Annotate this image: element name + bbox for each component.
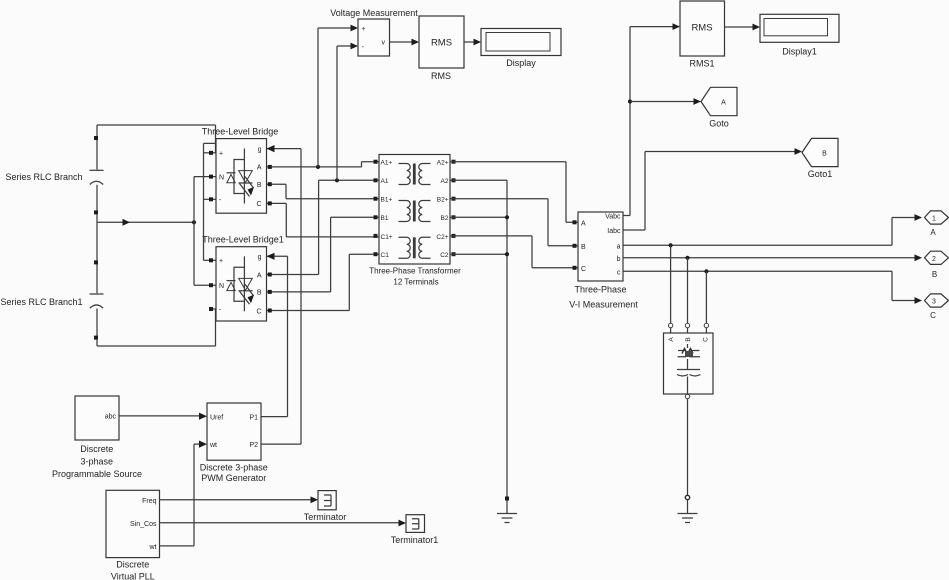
capacitor Series RLC Branch1 [90,260,104,339]
block RMS1 [680,1,725,56]
block RMS [419,16,464,68]
block Display [481,29,561,56]
svg-text:V-I Measurement: V-I Measurement [569,300,638,310]
wire bridge A to transformer A1+ [267,162,380,169]
svg-text:B2+: B2+ [437,197,449,204]
wire minus stub bridge [204,197,217,201]
wire bottom DC rail [97,309,216,346]
label Terminator [304,512,347,522]
svg-text:B1: B1 [381,215,389,222]
svg-text:Discrete 3-phase: Discrete 3-phase [200,463,268,473]
label Three-Phase Transformer [369,267,461,287]
wire transformer C2+ to V-I measurement C [450,236,578,270]
svg-text:A: A [257,272,262,279]
block Voltage Measurement VM [358,19,390,56]
svg-text:B: B [257,182,262,189]
block Discrete Virtual PLL [106,490,160,557]
block Three-Phase Transformer 12 Terminals T1 [379,155,450,265]
icon transformer winding phase C [399,237,431,258]
block Display1 [760,14,839,42]
wire PLL wt to PWM wt [160,441,208,546]
svg-text:Virtual PLL: Virtual PLL [111,572,155,580]
wire N stub bridge [194,175,216,179]
label Discrete 3-phase Programmable Source [52,444,142,479]
svg-text:A1+: A1+ [381,160,393,167]
goto tag B Goto1 [802,138,838,166]
svg-text:RMS1: RMS1 [689,59,714,69]
svg-text:Programmable Source: Programmable Source [52,469,142,479]
block Terminator1 [406,515,425,533]
svg-text:Terminator: Terminator [304,512,347,522]
outport 1 A [925,211,949,224]
wire plus stub bridge [204,151,216,155]
wire transformer B2 to ground bus [450,215,509,219]
wire RMS to Display [464,39,481,46]
icon load RLC elements [677,344,701,394]
svg-text:Uref: Uref [210,415,223,422]
svg-text:B: B [685,337,692,341]
svg-text:Three-Phase: Three-Phase [574,285,626,295]
node midpoint junction [192,220,196,224]
wire minus-to-plus link bridge/bridge1 [204,143,216,260]
block Discrete 3-phase PWM Generator [207,403,261,460]
wire P1 to g of bridge1 [261,253,288,417]
svg-text:Freq: Freq [142,498,157,505]
svg-text:c: c [617,269,621,276]
outport 2 B [925,251,949,264]
svg-text:wt: wt [209,442,217,449]
svg-text:B2: B2 [441,215,449,222]
label C [930,311,936,320]
svg-text:Three-Level Bridge: Three-Level Bridge [202,127,279,137]
wire minus stub bridge1 [209,307,216,311]
svg-text:Discrete: Discrete [116,560,149,570]
capacitor Series RLC Branch [90,136,104,214]
svg-text:1: 1 [932,216,936,223]
svg-text:B: B [932,270,937,279]
icon transformer winding phase B [399,201,431,222]
wire Vabc to RMS1 [623,23,680,215]
wire Sin_Cos to Terminator1 [160,520,407,527]
wire RMS1 to Display1 [725,24,761,31]
svg-text:v: v [382,40,386,47]
svg-text:B1+: B1+ [381,197,393,204]
wire c tap to load phase C [704,269,708,333]
wire midpoint horizontal to N bus [97,219,194,226]
svg-text:Vabc: Vabc [605,214,621,221]
svg-text:RMS: RMS [691,22,712,33]
svg-text:C1+: C1+ [381,234,393,241]
wire top DC rail [97,125,216,153]
ground G2 [678,514,698,523]
label RMS1 [689,59,714,69]
svg-text:Terminator1: Terminator1 [391,535,439,545]
svg-text:3-phase: 3-phase [81,457,114,467]
wire abc to Uref [119,413,207,420]
svg-text:wt: wt [149,544,157,551]
wire bridge C to transformer C1+ [267,201,380,237]
svg-text:A: A [257,165,262,172]
label B [932,270,937,279]
svg-text:A2: A2 [441,178,449,185]
svg-text:Discrete: Discrete [80,444,113,454]
block Three-Level Bridge U1 [216,139,267,214]
wire plus stub bridge1 [204,258,217,262]
label RMS [431,71,451,81]
svg-text:P1: P1 [249,415,258,422]
wire Freq to Terminator [160,496,319,503]
wire a to outport 1 [623,214,922,245]
svg-text:B: B [581,244,586,251]
wire transformer A2+ to V-I measurement A [450,162,578,225]
svg-text:3: 3 [932,299,936,306]
wire Iabc to Goto1 [623,148,802,230]
svg-text:A: A [721,100,726,107]
label Series RLC Branch [5,172,82,182]
svg-text:abc: abc [105,413,117,420]
svg-text:Series RLC Branch: Series RLC Branch [5,172,82,182]
goto tag A Goto [701,87,737,115]
svg-text:g: g [258,146,262,153]
svg-text:N: N [219,174,224,181]
wire bridge1 C to transformer C1 [267,254,380,312]
svg-text:Sin_Cos: Sin_Cos [130,521,157,528]
svg-text:N: N [219,283,224,290]
svg-text:C: C [256,308,261,315]
svg-text:A: A [668,337,675,342]
wire b to outport 2 [623,254,922,261]
wire transformer C2 to ground bus [450,252,509,256]
node A junction to voltage measurement plus [316,25,358,169]
wire transformer A2 to ground bus [450,180,507,513]
label Three-Phase V-I Measurement [569,285,638,310]
svg-text:C: C [256,201,261,208]
svg-text:12 Terminals: 12 Terminals [393,278,438,287]
label Display1 [782,47,817,57]
wire midpoint to Series RLC Branch1 [96,222,98,260]
node A1 junction to voltage measurement minus [335,43,358,183]
pin dots transformer left ports [374,160,378,257]
label Goto [709,119,729,129]
svg-text:Display1: Display1 [782,47,817,57]
wire N bus vertical [193,177,195,286]
wire bridge B to transformer B1+ [267,182,380,199]
svg-text:Three-Phase Transformer: Three-Phase Transformer [369,267,461,276]
label Series RLC Branch1 [0,297,82,307]
ground G1 [497,497,517,523]
wire c to outport 3 [623,271,922,304]
icon Three-Level Bridge1 thyristors [227,256,255,311]
label Discrete Virtual PLL [111,560,155,580]
wire P2 to g of bridge [261,145,301,444]
block Discrete 3-phase Programmable Source [75,396,119,440]
svg-text:Iabc: Iabc [607,228,621,235]
label Three-Level Bridge [202,127,279,137]
svg-text:B: B [822,151,827,158]
svg-text:C2+: C2+ [436,234,448,241]
label Discrete 3-phase PWM Generator [200,463,268,484]
svg-text:Goto1: Goto1 [808,169,833,179]
svg-text:P2: P2 [249,442,258,449]
wire load neutral to ground G2 [685,394,689,513]
svg-text:C: C [930,311,936,320]
wire voltage measurement v to RMS [390,39,420,46]
svg-text:Voltage Measurement: Voltage Measurement [330,8,418,18]
block Three-Phase Series RLC Load [664,333,714,394]
svg-text:B: B [257,290,262,297]
svg-text:a: a [617,243,621,250]
label Display [506,58,536,68]
wire top rail to Series RLC Branch [96,125,98,136]
label Goto1 [808,169,833,179]
svg-text:C2: C2 [440,252,449,259]
pin dots transformer right ports [452,160,456,257]
wire bridge1 A to transformer A1 [267,180,380,276]
svg-text:Series RLC Branch1: Series RLC Branch1 [0,297,82,307]
svg-text:A1: A1 [381,178,389,185]
svg-text:C: C [703,337,710,342]
svg-text:+: + [219,151,223,158]
wire b tap to load phase B [685,256,689,333]
svg-text:Three-Level Bridge1: Three-Level Bridge1 [202,235,284,245]
wire bridge1 B to transformer B1 [267,217,380,294]
wire branch to midpoint node [96,214,98,222]
icon Three-Level Bridge thyristors [227,149,255,204]
block Three-Level Bridge1 U2 [216,247,267,321]
svg-text:g: g [258,254,262,261]
svg-text:RMS: RMS [431,37,452,48]
svg-text:+: + [362,26,366,33]
label A [930,228,936,237]
svg-text:RMS: RMS [431,71,451,81]
svg-text:A2+: A2+ [437,160,449,167]
wire a tap to load phase A [668,243,672,333]
svg-text:Display: Display [506,58,536,68]
svg-text:C: C [581,266,586,273]
block Terminator [318,491,336,510]
svg-text:b: b [617,256,621,263]
svg-text:2: 2 [932,256,936,263]
svg-text:A: A [581,220,586,227]
label Terminator1 [391,535,439,545]
svg-text:PWM Generator: PWM Generator [201,473,266,483]
svg-text:Goto: Goto [709,119,729,129]
icon transformer winding phase A [399,164,431,185]
block Three-Phase V-I Measurement M1 [578,212,623,281]
svg-text:A: A [930,228,936,237]
node Vabc junction to Goto [628,98,701,105]
svg-text:C1: C1 [381,252,390,259]
svg-text:+: + [219,258,223,265]
wire N stub bridge1 [194,283,216,287]
outport 3 C [925,294,949,307]
wire transformer B2+ to V-I measurement B [450,199,578,248]
label Three-Level Bridge1 [202,235,284,245]
label Voltage Measurement [330,8,418,18]
